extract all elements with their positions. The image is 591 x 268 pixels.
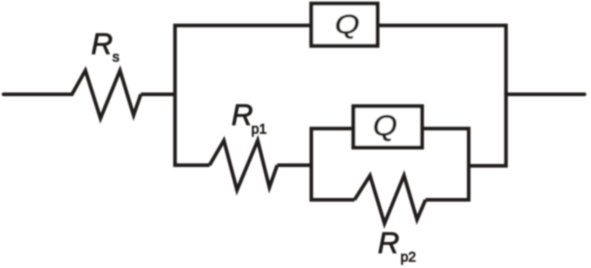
wire Rp1 to inner loop (277, 163, 313, 167)
svg-text:p1: p1 (251, 120, 267, 136)
CPE Q2 (constant phase element box Q, inner parallel loop) (353, 106, 422, 147)
CPE Q1 (constant phase element box Q, top branch) (311, 4, 377, 46)
wire left lead (4, 93, 73, 97)
svg-text:R: R (378, 227, 400, 260)
svg-text:R: R (231, 99, 253, 132)
label Rp2 (378, 227, 417, 265)
resistor Rp2 (355, 176, 426, 224)
resistor Rp1 (210, 141, 278, 191)
resistor Rs (72, 71, 141, 119)
wire right lead (506, 93, 585, 97)
wire left junction bus to top and bottom branches (175, 25, 311, 165)
svg-text:Q: Q (335, 10, 360, 40)
svg-text:p2: p2 (401, 249, 417, 265)
svg-text:Q: Q (373, 110, 397, 142)
svg-text:s: s (112, 49, 119, 65)
label Rs (91, 28, 119, 65)
label Rp1 (231, 99, 267, 136)
wire inner loop left side (311, 129, 354, 200)
svg-text:R: R (91, 28, 113, 61)
wire inner loop right side (421, 129, 468, 200)
wire Rs to left junction (141, 93, 177, 97)
wire top branch from Q1 to right bus and down to bottom branch (378, 25, 507, 165)
